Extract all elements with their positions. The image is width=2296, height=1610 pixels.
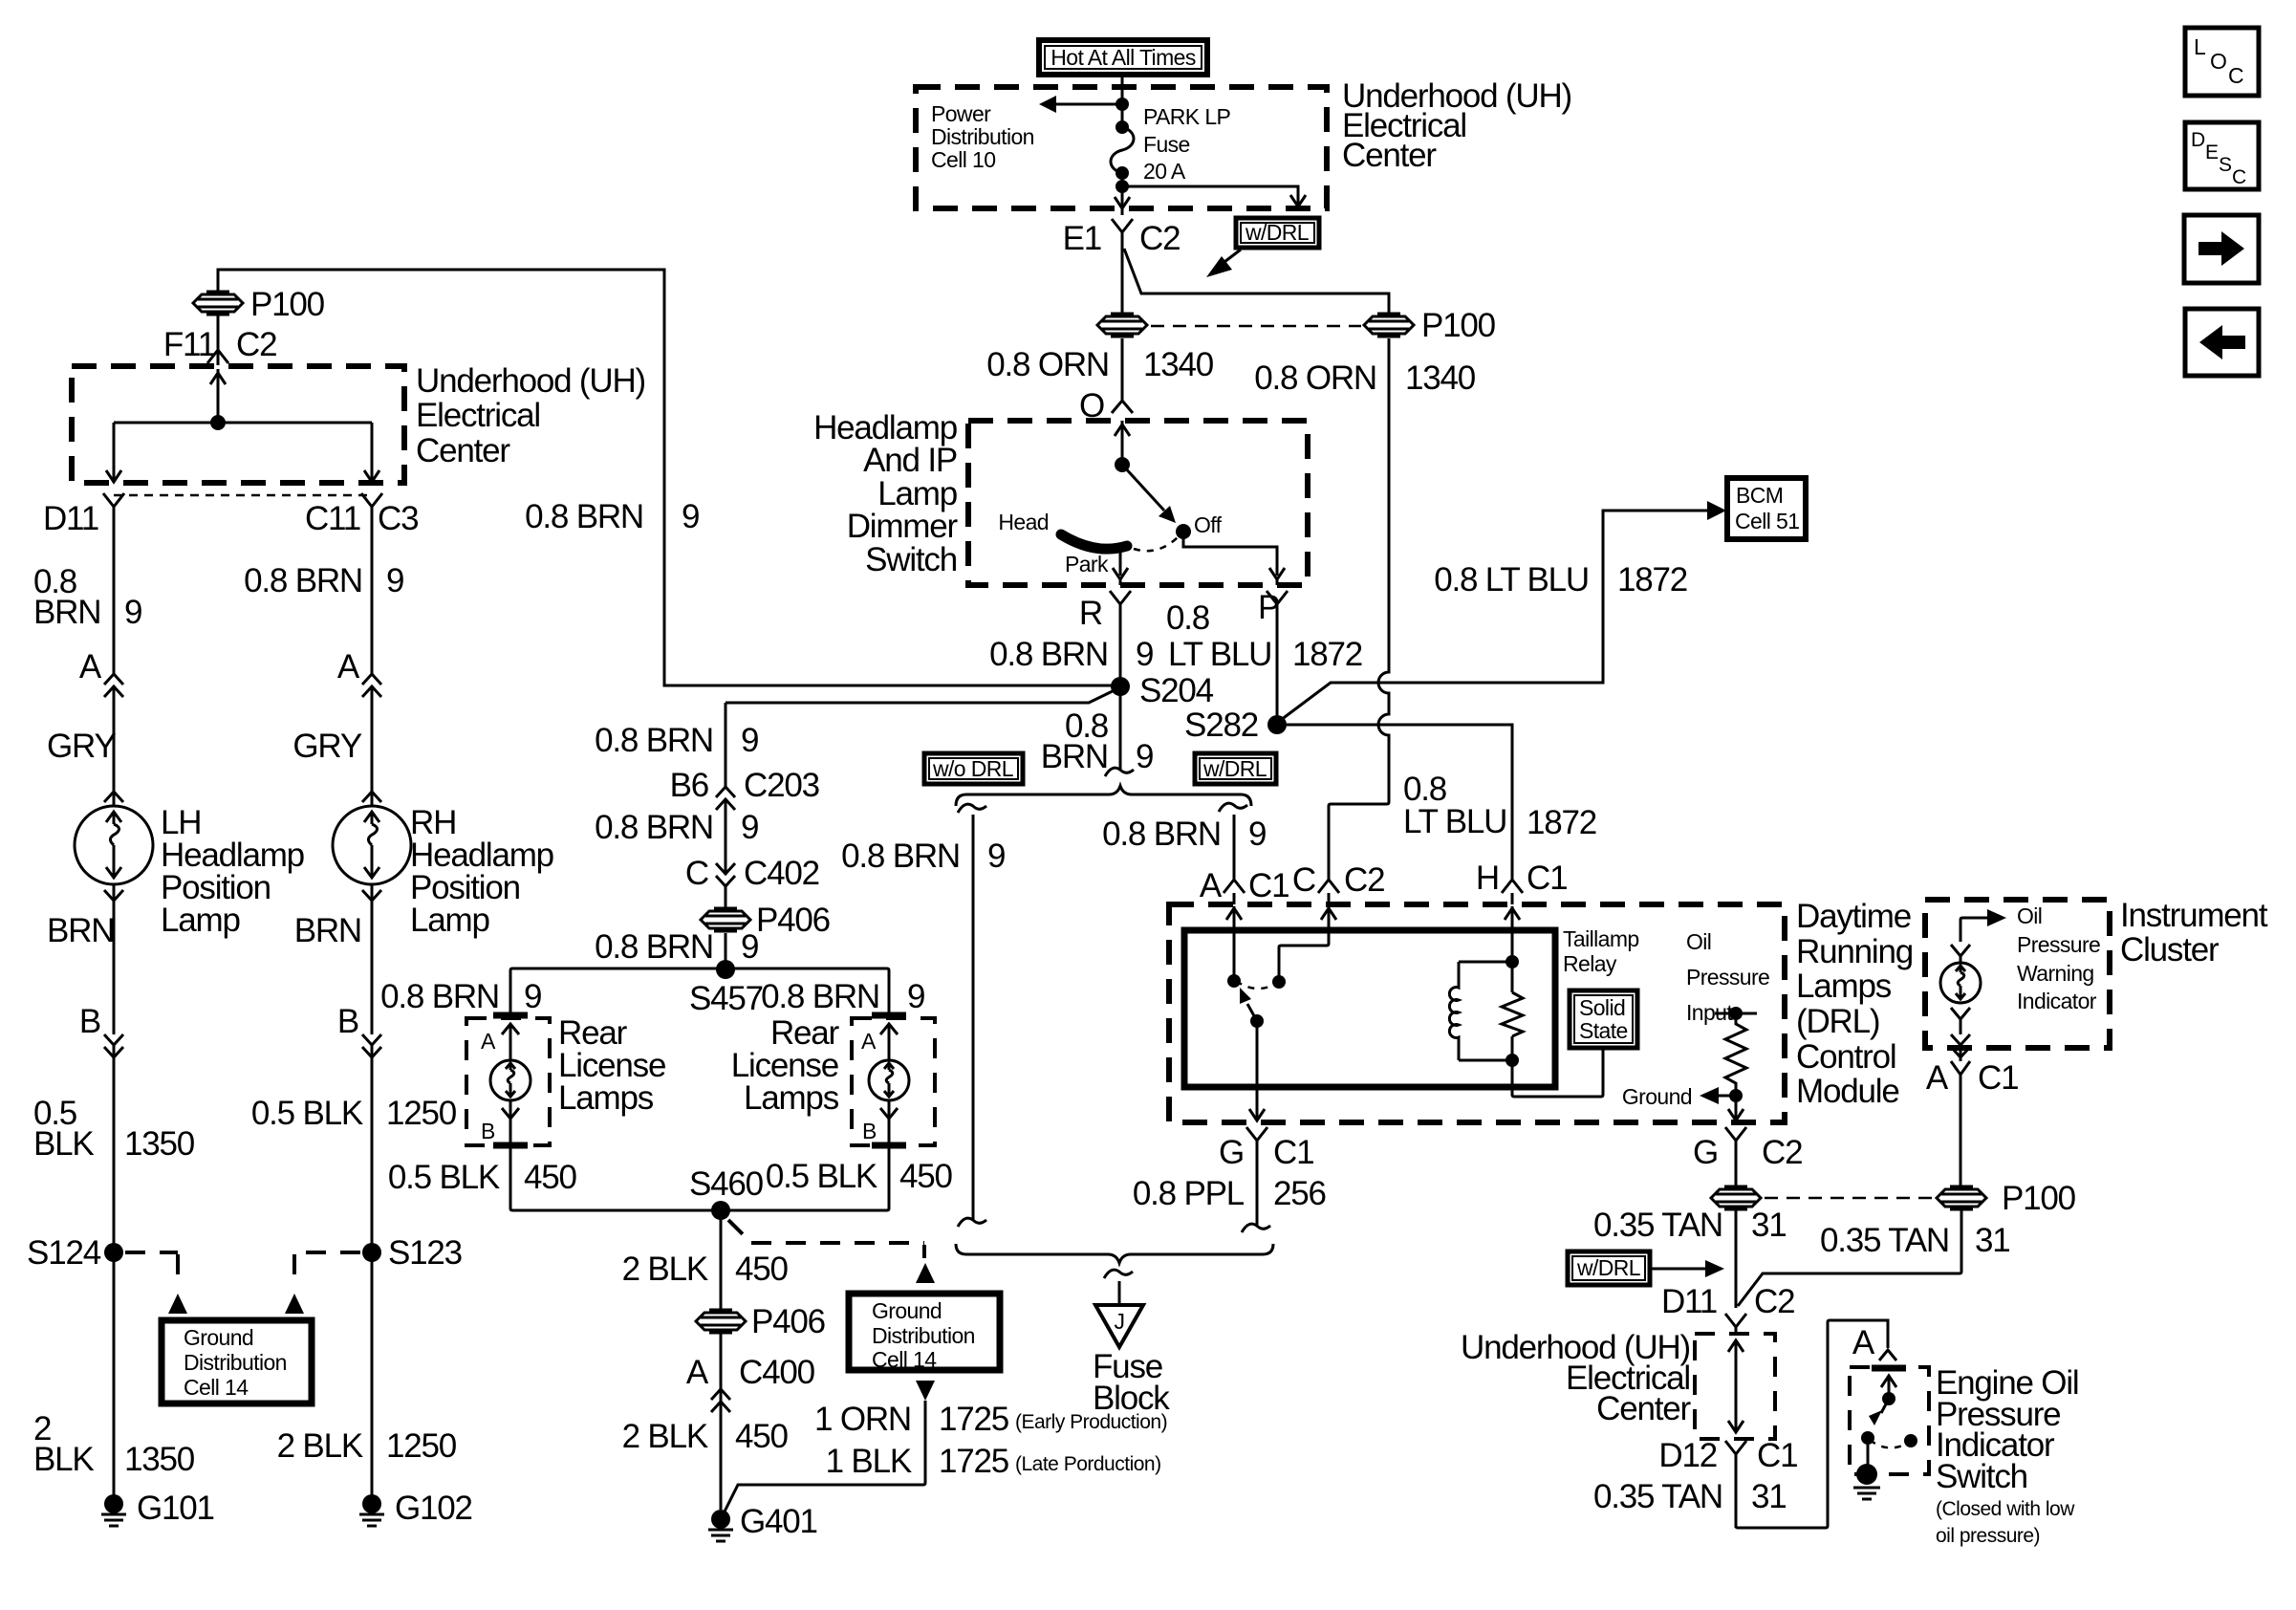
- svg-text:9: 9: [741, 809, 758, 846]
- svg-text:F11: F11: [163, 326, 215, 363]
- arrow to ground distribution (left): [168, 1294, 187, 1314]
- svg-text:9: 9: [1248, 816, 1266, 853]
- svg-text:BRN: BRN: [33, 594, 100, 631]
- svg-text:BRN: BRN: [294, 912, 361, 949]
- svg-text:S124: S124: [27, 1234, 101, 1272]
- connector F11 C2: [207, 350, 228, 363]
- svg-text:1872: 1872: [1617, 561, 1687, 598]
- svg-text:Warning: Warning: [2017, 961, 2094, 986]
- svg-text:0.8 ORN: 0.8 ORN: [1254, 359, 1376, 397]
- svg-text:C400: C400: [739, 1354, 815, 1391]
- svg-text:Lamps: Lamps: [1796, 968, 1892, 1005]
- svg-text:A: A: [861, 1029, 877, 1054]
- dimmer common node: [1115, 457, 1130, 472]
- svg-text:C2: C2: [1344, 861, 1384, 899]
- double chevron out of cluster: [1951, 1034, 1970, 1061]
- relay resistor: [1502, 992, 1523, 1036]
- svg-text:(Early Production): (Early Production): [1015, 1411, 1167, 1433]
- svg-text:450: 450: [899, 1158, 953, 1195]
- brace joining to fuse block: [956, 1244, 1273, 1263]
- svg-text:Pressure: Pressure: [2017, 932, 2100, 957]
- switch arm: [1881, 1399, 1889, 1413]
- splice S124: [104, 1243, 123, 1262]
- squiggle right branch: [1219, 803, 1247, 812]
- svg-text:0.8 BRN: 0.8 BRN: [761, 978, 879, 1015]
- svg-text:0.8: 0.8: [1166, 599, 1209, 637]
- switch travel arc: [1870, 1440, 1909, 1447]
- w/DRL tag (top): [1206, 218, 1319, 277]
- switch arm up arrow: [1881, 1376, 1896, 1399]
- svg-text:(Late Porduction): (Late Porduction): [1015, 1453, 1161, 1475]
- svg-text:Distribution: Distribution: [872, 1323, 975, 1348]
- splice S204: [1111, 677, 1130, 696]
- svg-text:0.5 BLK: 0.5 BLK: [388, 1159, 500, 1196]
- svg-text:9: 9: [1136, 636, 1153, 673]
- svg-text:Pressure: Pressure: [1686, 965, 1769, 990]
- instrument cluster box: [1925, 900, 2110, 1048]
- wire S282 to H pin: [1287, 725, 1512, 880]
- fuse block J symbol: [1095, 1305, 1143, 1347]
- svg-text:Center: Center: [1596, 1390, 1691, 1427]
- connector face dashed line C3: [114, 494, 372, 497]
- arrow down into box bottom right: [364, 470, 379, 482]
- svg-text:BCM: BCM: [1736, 483, 1783, 508]
- svg-text:Taillamp: Taillamp: [1563, 926, 1639, 951]
- wire into dimmer, arrow: [1115, 421, 1130, 465]
- Hot At All Times box: [1039, 40, 1207, 75]
- svg-text:B: B: [337, 1003, 358, 1040]
- svg-text:G401: G401: [740, 1503, 817, 1540]
- relay coil top node: [1505, 955, 1519, 968]
- connector D11 C2: [1725, 1314, 1746, 1334]
- svg-text:A: A: [1852, 1324, 1875, 1361]
- svg-text:450: 450: [735, 1418, 789, 1455]
- splice S460: [711, 1201, 730, 1220]
- svg-text:9: 9: [741, 928, 758, 966]
- svg-text:0.8 BRN: 0.8 BRN: [1102, 816, 1221, 853]
- svg-text:P406: P406: [756, 902, 830, 939]
- connector C11 C3: [361, 493, 382, 535]
- splice S123: [362, 1243, 381, 1262]
- svg-text:0.8 BRN: 0.8 BRN: [595, 722, 713, 759]
- grommet P406 (lower): [696, 1310, 746, 1333]
- svg-text:D12: D12: [1658, 1437, 1717, 1474]
- node to power distribution: [1116, 98, 1129, 111]
- relay switch arm: [1250, 1014, 1264, 1028]
- svg-text:Underhood (UH): Underhood (UH): [416, 362, 645, 400]
- svg-text:w/DRL: w/DRL: [1576, 1255, 1641, 1280]
- connector G C1: [1246, 1127, 1267, 1227]
- svg-text:9: 9: [386, 562, 403, 599]
- svg-text:0.8 BRN: 0.8 BRN: [595, 928, 713, 966]
- svg-text:LT BLU: LT BLU: [1403, 803, 1506, 840]
- wire S282 to BCM: [1277, 511, 1707, 723]
- svg-text:0.35 TAN: 0.35 TAN: [1593, 1207, 1722, 1244]
- svg-text:A: A: [481, 1029, 496, 1054]
- svg-text:0.8 LT BLU: 0.8 LT BLU: [1434, 561, 1589, 598]
- svg-text:Solid: Solid: [1579, 995, 1625, 1020]
- svg-text:A: A: [686, 1354, 709, 1391]
- svg-text:31: 31: [1975, 1222, 2010, 1259]
- relay coil: [1449, 962, 1459, 1060]
- svg-text:0.8 BRN: 0.8 BRN: [244, 562, 362, 599]
- svg-text:Ground: Ground: [184, 1325, 253, 1350]
- LOC box: [2185, 28, 2259, 96]
- connector A C1 (cluster): [1951, 1061, 1970, 1186]
- dashed reference from S460 to ground distribution: [728, 1220, 745, 1236]
- svg-text:2 BLK: 2 BLK: [622, 1418, 708, 1455]
- svg-text:Oil: Oil: [1686, 929, 1711, 954]
- svg-text:Fuse: Fuse: [1143, 132, 1190, 157]
- wire Off to P exit: [1183, 532, 1285, 585]
- RH feed wire C11 down: [371, 535, 374, 674]
- svg-text:2 BLK: 2 BLK: [277, 1427, 363, 1465]
- wire right P100 down and to D11: [1738, 1210, 1961, 1306]
- svg-text:LT BLU: LT BLU: [1168, 636, 1271, 673]
- svg-text:Off: Off: [1194, 512, 1223, 537]
- ground reference arrow: [1729, 1089, 1743, 1102]
- wire ORN right down with hops: [1329, 338, 1389, 880]
- svg-text:(DRL): (DRL): [1796, 1003, 1879, 1040]
- LH headlamp position lamp: [75, 792, 304, 939]
- svg-text:1725: 1725: [939, 1443, 1008, 1480]
- squiggle above J: [1104, 1270, 1133, 1278]
- node below fuse: [1116, 180, 1129, 193]
- svg-text:BRN: BRN: [47, 912, 114, 949]
- wire S124 to G101: [113, 1252, 116, 1495]
- taillamp relay inner box: [1184, 930, 1555, 1087]
- svg-text:C1: C1: [1757, 1437, 1797, 1474]
- connector R: [1110, 591, 1131, 686]
- svg-text:Switch: Switch: [865, 541, 957, 578]
- svg-text:450: 450: [524, 1159, 577, 1196]
- cluster lamp input connector: [1951, 945, 1970, 963]
- svg-text:Lamps: Lamps: [558, 1079, 654, 1117]
- splice S457: [716, 960, 735, 979]
- svg-text:Cell 10: Cell 10: [931, 147, 995, 172]
- svg-text:Cell 14: Cell 14: [184, 1375, 249, 1400]
- svg-text:1872: 1872: [1527, 804, 1596, 841]
- svg-text:Daytime: Daytime: [1796, 898, 1911, 935]
- svg-text:2 BLK: 2 BLK: [622, 1251, 708, 1288]
- svg-text:w/o DRL: w/o DRL: [932, 756, 1014, 781]
- svg-text:1872: 1872: [1292, 636, 1362, 673]
- svg-text:1350: 1350: [124, 1441, 195, 1478]
- svg-text:9: 9: [682, 498, 699, 535]
- svg-text:450: 450: [735, 1251, 789, 1288]
- svg-text:C2: C2: [1139, 220, 1180, 257]
- solid state box: [1570, 990, 1637, 1048]
- svg-text:C203: C203: [744, 767, 819, 804]
- svg-text:GRY: GRY: [47, 728, 116, 765]
- wire E1 down to P100: [1121, 247, 1124, 315]
- wire RH B down: [371, 901, 374, 1034]
- svg-text:BLK: BLK: [33, 1125, 94, 1163]
- svg-text:w/DRL: w/DRL: [1202, 756, 1267, 781]
- svg-text:256: 256: [1273, 1175, 1326, 1212]
- connector C C2 into DRL: [1318, 880, 1339, 904]
- LH feed wire D11 down: [113, 535, 116, 674]
- svg-text:O: O: [2210, 49, 2226, 74]
- svg-text:And IP: And IP: [863, 442, 957, 479]
- svg-text:0.5 BLK: 0.5 BLK: [251, 1095, 363, 1132]
- svg-text:0.8 BRN: 0.8 BRN: [841, 838, 960, 875]
- svg-text:9: 9: [1136, 738, 1153, 775]
- wire branch to right P100 (w/DRL): [1124, 249, 1389, 315]
- squiggle bottom of w/o DRL wire: [958, 1218, 986, 1227]
- BCM Cell 51 box: [1727, 478, 1806, 539]
- arrows into DRL box: [1226, 906, 1242, 934]
- wire S460 down to G401: [720, 1210, 723, 1510]
- UH electrical center box (top): [916, 87, 1327, 208]
- rear license lamp bus wire: [510, 968, 889, 1018]
- svg-text:Cluster: Cluster: [2120, 931, 2220, 968]
- svg-text:C1: C1: [1248, 867, 1289, 904]
- svg-text:Oil: Oil: [2017, 903, 2042, 928]
- svg-text:Instrument: Instrument: [2120, 897, 2268, 934]
- DRL control module box: [1169, 904, 1785, 1122]
- svg-text:J: J: [1115, 1309, 1125, 1334]
- svg-text:Indicator: Indicator: [2017, 989, 2097, 1013]
- svg-text:Dimmer: Dimmer: [847, 508, 959, 545]
- wire branch right inside box: [1122, 173, 1306, 207]
- svg-text:Lamps: Lamps: [744, 1079, 839, 1117]
- svg-text:Center: Center: [1342, 137, 1437, 174]
- svg-text:G: G: [1693, 1134, 1718, 1171]
- svg-text:E1: E1: [1063, 220, 1101, 257]
- svg-text:B6: B6: [670, 767, 708, 804]
- wire coil to solid state: [1512, 1048, 1603, 1097]
- splice S282: [1267, 715, 1287, 734]
- svg-text:G: G: [1219, 1134, 1244, 1171]
- grommet P100 bottom-left: [1711, 1186, 1761, 1209]
- svg-text:C: C: [1292, 861, 1315, 899]
- svg-text:PARK LP: PARK LP: [1143, 104, 1231, 129]
- cluster feed arrow: [1960, 918, 1987, 942]
- svg-text:S282: S282: [1184, 707, 1258, 744]
- svg-text:oil pressure): oil pressure): [1936, 1525, 2040, 1547]
- wire ground distribution to G401: [724, 1401, 925, 1513]
- svg-text:C1: C1: [1527, 859, 1567, 897]
- svg-text:Distribution: Distribution: [931, 124, 1034, 149]
- wire R exit from Park: [1113, 548, 1128, 585]
- squiggle bottom of G C1 wire: [1242, 1224, 1270, 1232]
- svg-text:1340: 1340: [1405, 359, 1476, 397]
- svg-text:0.8 BRN: 0.8 BRN: [989, 636, 1108, 673]
- grommet P100 bottom-right: [1937, 1186, 1986, 1209]
- svg-text:Center: Center: [416, 432, 510, 469]
- ground G401: [708, 1503, 817, 1541]
- connector D12 C1: [1725, 1441, 1746, 1528]
- svg-text:Module: Module: [1796, 1073, 1899, 1110]
- svg-text:A: A: [337, 648, 360, 685]
- connector D11: [103, 493, 124, 535]
- svg-text:Cell 14: Cell 14: [872, 1347, 937, 1372]
- svg-text:C3: C3: [378, 500, 418, 537]
- svg-text:C1: C1: [1978, 1059, 2018, 1097]
- svg-text:A: A: [1926, 1059, 1949, 1097]
- svg-text:20 A: 20 A: [1143, 159, 1186, 184]
- svg-text:P: P: [1258, 589, 1279, 626]
- connector A C1 into DRL: [1224, 880, 1245, 904]
- svg-text:B: B: [481, 1119, 495, 1143]
- w/o DRL tag: [924, 753, 1023, 784]
- svg-text:Park: Park: [1065, 552, 1109, 577]
- RH headlamp position lamp: [333, 792, 553, 939]
- svg-text:0.35 TAN: 0.35 TAN: [1820, 1222, 1949, 1259]
- svg-text:H: H: [1476, 859, 1499, 897]
- svg-text:Relay: Relay: [1563, 951, 1617, 976]
- arrows inside UH box: [1728, 1340, 1744, 1384]
- svg-text:P100: P100: [1421, 307, 1496, 344]
- dashed travel arc to Off: [1134, 536, 1179, 551]
- svg-text:D: D: [2191, 129, 2205, 151]
- dimmer wiper arrow to Off: [1122, 465, 1164, 511]
- svg-text:9: 9: [987, 838, 1005, 875]
- svg-text:1350: 1350: [124, 1125, 195, 1163]
- svg-text:D11: D11: [1661, 1283, 1717, 1320]
- svg-text:Control: Control: [1796, 1038, 1895, 1076]
- arrow left box: [2185, 309, 2259, 376]
- svg-text:G101: G101: [137, 1490, 214, 1527]
- svg-text:D11: D11: [43, 500, 98, 537]
- svg-text:B: B: [862, 1119, 877, 1143]
- svg-text:Cell 51: Cell 51: [1735, 509, 1799, 533]
- svg-text:Running: Running: [1796, 933, 1913, 970]
- relay switch travel arc: [1236, 981, 1277, 989]
- svg-text:w/DRL: w/DRL: [1245, 220, 1310, 245]
- svg-text:E: E: [2205, 141, 2219, 163]
- svg-text:0.8 BRN: 0.8 BRN: [525, 498, 643, 535]
- relay switch A contact: [1233, 934, 1236, 981]
- svg-text:Distribution: Distribution: [184, 1350, 287, 1375]
- wire license B pins to S460: [510, 1145, 889, 1210]
- svg-text:R: R: [1079, 595, 1102, 632]
- svg-text:P100: P100: [250, 286, 325, 323]
- svg-text:S: S: [2219, 154, 2232, 176]
- svg-text:BRN: BRN: [1041, 738, 1108, 775]
- svg-text:C2: C2: [236, 326, 276, 363]
- svg-text:(Closed with low: (Closed with low: [1936, 1498, 2075, 1520]
- svg-text:A: A: [1200, 867, 1223, 904]
- svg-text:Ground: Ground: [872, 1298, 942, 1323]
- brace splitting w/o and w/ DRL: [956, 786, 1251, 806]
- svg-text:A: A: [79, 648, 102, 685]
- svg-text:1 ORN: 1 ORN: [814, 1401, 911, 1438]
- wire LH B down: [113, 901, 116, 1034]
- grommet P406 (upper): [701, 908, 750, 931]
- arrow right box: [2184, 215, 2259, 283]
- svg-text:C2: C2: [1762, 1134, 1802, 1171]
- lower feed wire from C203 column to S204: [726, 687, 1120, 703]
- connector G C2: [1725, 1127, 1746, 1186]
- svg-text:S123: S123: [388, 1234, 462, 1272]
- wire w/o DRL long drop: [972, 815, 975, 1221]
- svg-text:B: B: [79, 1003, 100, 1040]
- connector P: [1267, 591, 1288, 725]
- svg-text:Lamp: Lamp: [161, 902, 240, 939]
- wire P406 to S457: [725, 933, 727, 969]
- UH electrical center box (left): [72, 366, 404, 483]
- svg-text:P100: P100: [2002, 1180, 2076, 1217]
- node F11 branch: [210, 415, 226, 430]
- Off contact: [1176, 524, 1191, 539]
- rear license lamp left: [466, 1015, 550, 1145]
- wire main down through box bottom: [1115, 186, 1130, 215]
- connector A (oil switch): [1879, 1350, 1896, 1360]
- connector H C1 into DRL: [1502, 880, 1523, 904]
- continuation squiggle: [1105, 768, 1134, 776]
- UH electrical center box (bottom right): [1695, 1334, 1775, 1439]
- svg-text:31: 31: [1751, 1207, 1787, 1244]
- ground G102: [359, 1490, 472, 1527]
- svg-text:Switch: Switch: [1936, 1458, 2027, 1495]
- svg-text:Hot At All Times: Hot At All Times: [1051, 45, 1196, 70]
- oil pressure input resistor: [1715, 1012, 1757, 1015]
- svg-text:9: 9: [741, 722, 758, 759]
- wire P100 down to dimmer box, connector O: [1112, 338, 1133, 413]
- arrow to power distribution cell 10: [1056, 103, 1122, 106]
- wire P100 to D11: [1735, 1210, 1738, 1308]
- relay switch C2 contact: [1279, 944, 1329, 982]
- oil pressure warning indicator lamp: [1940, 963, 1981, 1003]
- ground distribution cell 14 box (left): [162, 1320, 312, 1403]
- rear license lamp right: [852, 1015, 935, 1145]
- svg-text:0.35 TAN: 0.35 TAN: [1593, 1478, 1722, 1515]
- switch A terminal plate: [1872, 1365, 1906, 1372]
- svg-text:9: 9: [124, 594, 141, 631]
- ground distribution cell 14 box (center): [849, 1294, 1000, 1370]
- wire S204 down to brace: [1119, 686, 1122, 771]
- svg-text:L: L: [2194, 34, 2206, 59]
- svg-text:0.5 BLK: 0.5 BLK: [766, 1158, 877, 1195]
- svg-text:G102: G102: [395, 1490, 472, 1527]
- engine oil pressure indicator switch box: [1850, 1367, 1929, 1474]
- lamp output connector: [1951, 1008, 1970, 1034]
- svg-text:0.8 BRN: 0.8 BRN: [595, 809, 713, 846]
- grommet P100 top-left: [193, 270, 325, 365]
- wire top loop from P100 to S204 feed: [218, 270, 1115, 685]
- switch contact: [1861, 1431, 1874, 1445]
- oil input exit arrow: [1728, 1096, 1744, 1120]
- svg-text:S460: S460: [689, 1165, 764, 1203]
- wire from Hot box down: [1121, 75, 1124, 125]
- svg-text:BLK: BLK: [33, 1441, 94, 1478]
- svg-text:1725: 1725: [939, 1401, 1008, 1438]
- svg-text:9: 9: [524, 978, 541, 1015]
- fuse PARK LP 20 A: [1111, 104, 1231, 184]
- connector E1 C2: [1112, 219, 1133, 247]
- ground G101: [101, 1490, 214, 1527]
- svg-text:C11: C11: [305, 500, 360, 537]
- Park wiper thick arc: [1061, 534, 1127, 549]
- arrow to ground distribution (S460): [916, 1263, 935, 1283]
- svg-text:Power: Power: [931, 101, 991, 126]
- relay common exit wire: [1249, 1021, 1265, 1120]
- relay coil bottom node: [1505, 1054, 1519, 1067]
- grommet P100 center-left: [1097, 314, 1147, 337]
- svg-text:S204: S204: [1139, 672, 1214, 709]
- svg-text:1250: 1250: [386, 1427, 457, 1465]
- wire D12 loop to oil switch: [1736, 1320, 1888, 1528]
- svg-text:Head: Head: [998, 510, 1049, 534]
- svg-text:S457: S457: [689, 980, 763, 1017]
- arrow from ground distribution down: [916, 1381, 935, 1401]
- svg-text:State: State: [1579, 1018, 1628, 1043]
- svg-text:31: 31: [1751, 1478, 1787, 1515]
- svg-text:GRY: GRY: [292, 728, 361, 765]
- svg-text:C402: C402: [744, 855, 819, 892]
